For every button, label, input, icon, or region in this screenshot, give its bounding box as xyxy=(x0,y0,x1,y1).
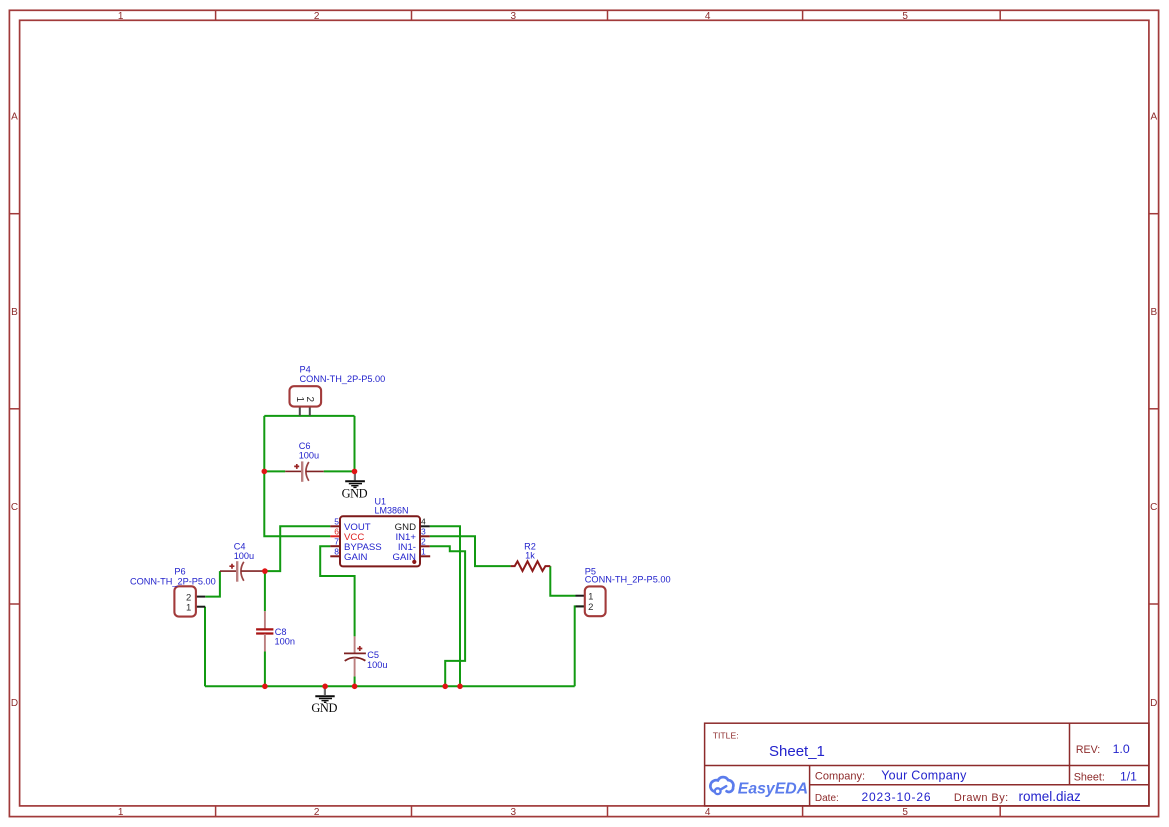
capacitor C5 xyxy=(344,636,366,676)
svg-text:1.0: 1.0 xyxy=(1113,742,1130,756)
svg-text:2: 2 xyxy=(314,807,320,818)
svg-text:B: B xyxy=(11,307,18,318)
svg-text:100n: 100n xyxy=(275,636,295,646)
wire IN1+ to R2 xyxy=(430,536,511,566)
frame column numbers bottom xyxy=(118,807,909,818)
body xyxy=(340,516,420,566)
frame row ticks right xyxy=(1149,214,1159,604)
svg-text:GND: GND xyxy=(311,701,337,715)
wire P4 net horizontal xyxy=(264,416,354,472)
EasyEDA logo cloud xyxy=(710,777,733,794)
ground GND (top, right of C6) xyxy=(345,471,365,487)
frame column ticks top xyxy=(216,10,1001,20)
svg-text:2: 2 xyxy=(304,397,315,403)
svg-text:CONN-TH_2P-P5.00: CONN-TH_2P-P5.00 xyxy=(300,374,386,384)
svg-text:P6: P6 xyxy=(174,567,185,577)
svg-text:1: 1 xyxy=(118,11,124,22)
svg-text:Sheet:: Sheet: xyxy=(1074,772,1105,784)
svg-text:Date:: Date: xyxy=(815,793,839,804)
junction at C5 bottom rail xyxy=(352,684,358,690)
svg-text:D: D xyxy=(11,698,18,709)
svg-text:EasyEDA: EasyEDA xyxy=(738,780,808,797)
svg-text:2023-10-26: 2023-10-26 xyxy=(862,790,932,804)
svg-text:100u: 100u xyxy=(367,660,387,670)
svg-text:C: C xyxy=(1150,502,1157,513)
svg-text:3: 3 xyxy=(511,807,517,818)
svg-text:8: 8 xyxy=(334,546,339,556)
svg-text:3: 3 xyxy=(421,526,426,536)
frame row letters left xyxy=(11,112,18,709)
svg-text:Company:: Company: xyxy=(815,771,865,783)
connector P4 xyxy=(290,386,322,416)
origin dot xyxy=(412,560,416,564)
wire IN1- to rail xyxy=(430,546,465,686)
pin stubs left xyxy=(330,525,340,527)
junction at IN1- rail xyxy=(442,684,448,690)
svg-text:B: B xyxy=(1150,307,1157,318)
pin stubs right xyxy=(420,525,430,527)
wire C4 node down to C8 xyxy=(264,571,266,611)
svg-text:GAIN: GAIN xyxy=(344,552,368,563)
svg-text:4: 4 xyxy=(705,807,711,818)
svg-text:1: 1 xyxy=(118,807,124,818)
svg-text:LM386N: LM386N xyxy=(375,505,409,515)
capacitor C4 xyxy=(220,561,265,582)
svg-text:3: 3 xyxy=(511,11,517,22)
capacitor C8 xyxy=(256,611,273,651)
svg-text:CONN-TH_2P-P5.00: CONN-TH_2P-P5.00 xyxy=(130,576,216,586)
svg-text:Sheet_1: Sheet_1 xyxy=(769,743,825,760)
junction at GND bottom rail xyxy=(322,684,328,690)
svg-text:5: 5 xyxy=(334,516,339,526)
capacitor C6 xyxy=(285,461,324,481)
svg-text:2: 2 xyxy=(421,536,426,546)
wire BYPASS to C5 xyxy=(320,546,354,636)
connector P5 xyxy=(576,586,606,616)
frame column ticks bottom xyxy=(216,806,1001,817)
resistor R2 xyxy=(511,561,551,571)
svg-text:Drawn By:: Drawn By: xyxy=(954,792,1009,804)
svg-text:100u: 100u xyxy=(299,450,319,460)
wire bottom rail xyxy=(205,685,575,687)
svg-text:P4: P4 xyxy=(300,364,311,374)
svg-text:1: 1 xyxy=(294,397,305,403)
svg-text:C8: C8 xyxy=(275,627,287,637)
wire C8 bottom to rail xyxy=(264,652,266,687)
ground GND (bottom) xyxy=(315,686,334,702)
wire C5 bottom to rail xyxy=(354,676,356,686)
svg-text:100u: 100u xyxy=(234,551,254,561)
svg-text:2: 2 xyxy=(588,602,593,613)
svg-text:1: 1 xyxy=(421,546,426,556)
junction at pin4 rail xyxy=(457,684,463,690)
svg-text:5: 5 xyxy=(902,11,908,22)
wire P5 pin2 riser xyxy=(575,606,585,686)
frame row ticks left xyxy=(9,214,19,604)
svg-text:2: 2 xyxy=(314,11,320,22)
svg-text:A: A xyxy=(11,112,18,123)
wire R2 right to P5 pin1 xyxy=(550,566,575,596)
op-amp U1 LM386N xyxy=(330,516,430,566)
svg-text:C5: C5 xyxy=(367,650,379,660)
wire VOUT to C4 node xyxy=(265,526,330,571)
svg-text:1/1: 1/1 xyxy=(1120,770,1137,784)
svg-text:romel.diaz: romel.diaz xyxy=(1019,789,1082,804)
title block frame xyxy=(705,723,1149,806)
junction at C4 / VOUT node xyxy=(262,568,268,574)
svg-text:TITLE:: TITLE: xyxy=(713,731,739,741)
wire P6 pin2 to C4 xyxy=(205,571,220,597)
svg-text:1: 1 xyxy=(186,603,191,614)
svg-text:1: 1 xyxy=(588,591,593,602)
svg-text:1k: 1k xyxy=(525,551,535,561)
svg-text:A: A xyxy=(1150,112,1157,123)
frame row letters right xyxy=(1150,112,1157,709)
svg-text:D: D xyxy=(1150,698,1157,709)
svg-text:CONN-TH_2P-P5.00: CONN-TH_2P-P5.00 xyxy=(585,574,671,584)
svg-text:6: 6 xyxy=(334,526,339,536)
svg-text:Your Company: Your Company xyxy=(881,769,967,783)
svg-text:4: 4 xyxy=(705,11,711,22)
svg-text:REV:: REV: xyxy=(1076,744,1100,756)
wire C6 left to VCC xyxy=(264,471,330,536)
junction at C6 right / GND xyxy=(352,469,358,475)
frame column numbers top xyxy=(118,11,909,22)
svg-text:5: 5 xyxy=(902,807,908,818)
junction at C8 bottom rail xyxy=(262,684,268,690)
junction at C6 left xyxy=(262,469,268,475)
svg-text:7: 7 xyxy=(334,536,339,546)
wire P6 pin1 down xyxy=(204,607,206,687)
connector P6 xyxy=(174,586,205,616)
svg-text:4: 4 xyxy=(421,516,426,526)
wire C6 green stubs xyxy=(264,470,354,472)
wire pin4 GND to rail xyxy=(430,526,460,686)
svg-text:C: C xyxy=(11,502,18,513)
svg-text:GND: GND xyxy=(342,486,368,500)
